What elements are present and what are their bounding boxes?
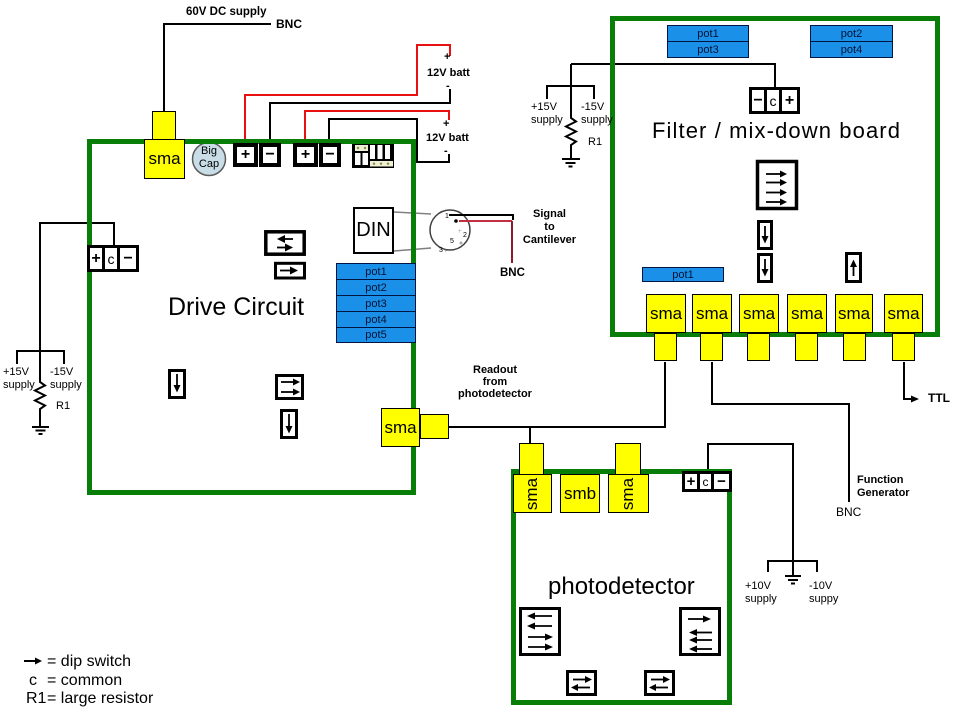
svg-text:1: 1	[445, 213, 449, 220]
svg-text:2: 2	[463, 232, 467, 239]
svg-text:+: +	[444, 249, 448, 255]
svg-text:3: 3	[439, 247, 443, 254]
svg-text:5: 5	[450, 238, 454, 245]
svg-text:+: +	[458, 229, 462, 235]
